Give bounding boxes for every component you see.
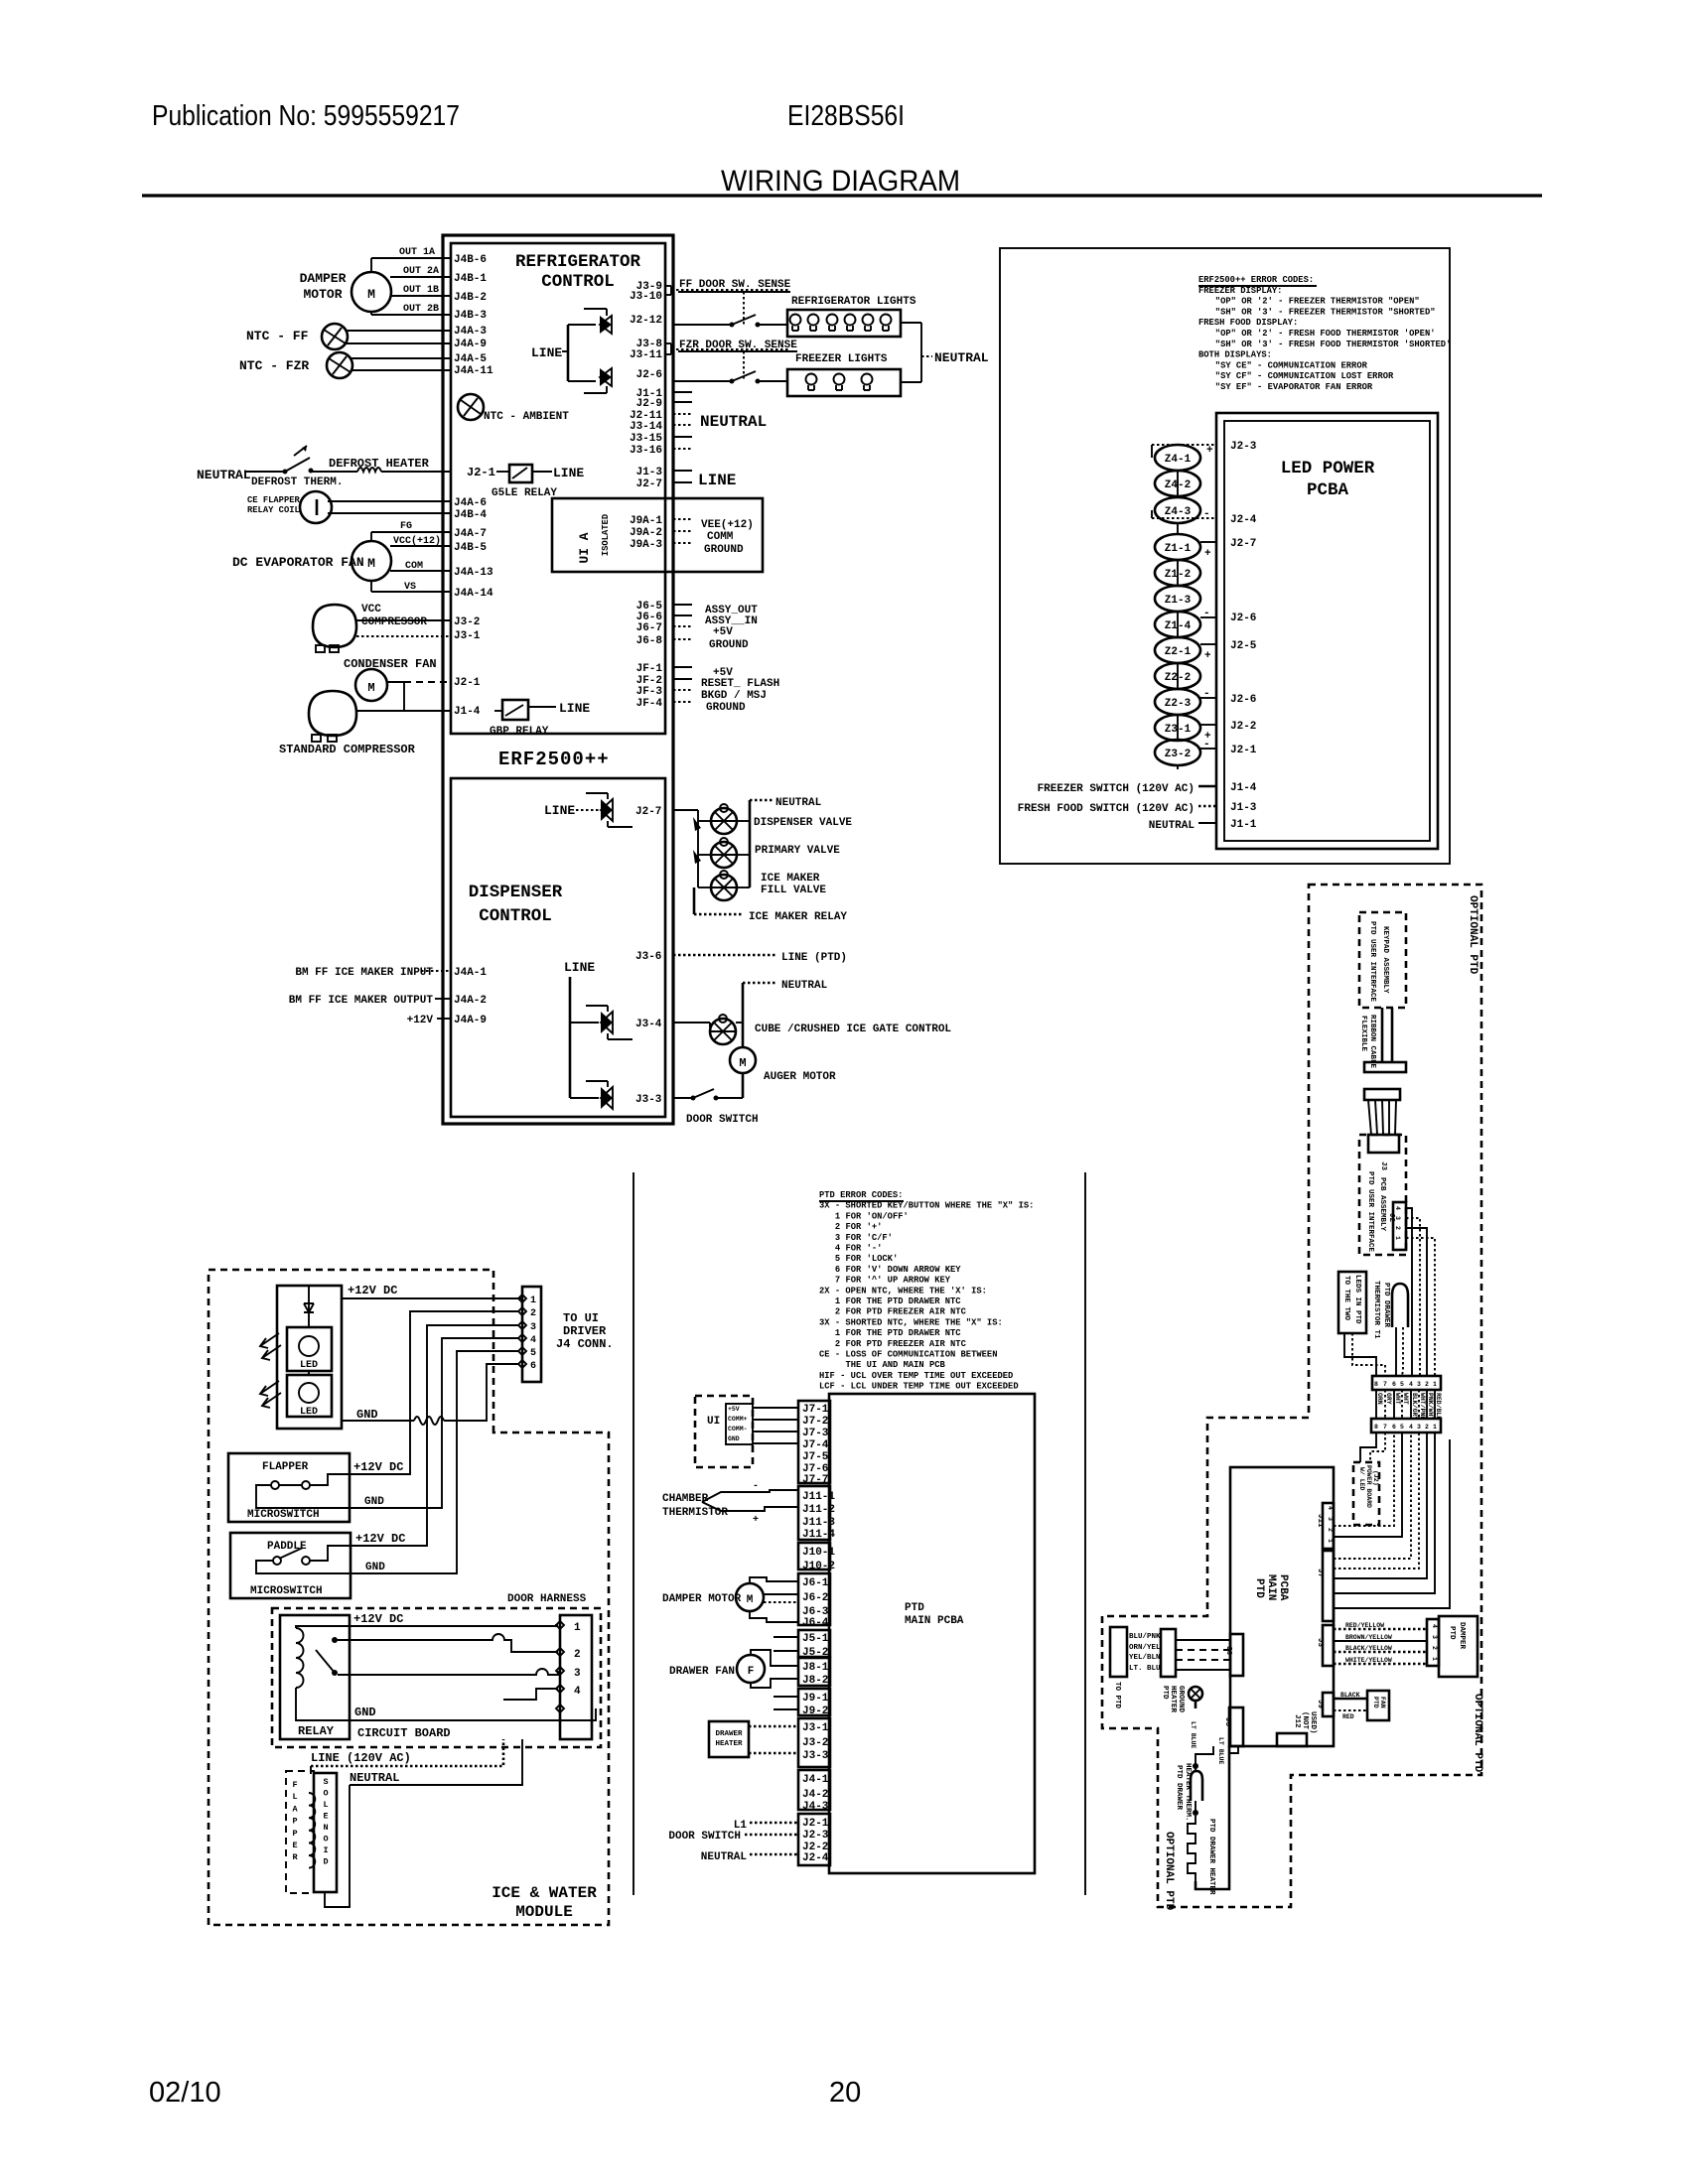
svg-text:2: 2 — [1425, 1381, 1429, 1388]
svg-text:PTD: PTD — [1253, 1578, 1265, 1598]
svg-text:4: 4 — [1409, 1424, 1413, 1431]
diode primary valve — [693, 850, 701, 864]
box U-REF refrigerator control — [451, 243, 665, 734]
svg-text:J4A-11: J4A-11 — [454, 365, 493, 377]
box LED power section outer — [1000, 248, 1450, 864]
wire freezer switch — [1198, 785, 1216, 788]
wire OUT 1A — [370, 258, 372, 273]
wire pin4 to flapper GND — [350, 1338, 518, 1508]
bracket J3-9/J3-10 — [665, 285, 671, 287]
svg-text:MICROSWITCH: MICROSWITCH — [250, 1585, 323, 1597]
svg-text:+12V: +12V — [407, 1015, 434, 1026]
svg-text:1: 1 — [1433, 1424, 1437, 1431]
svg-text:Z4-1: Z4-1 — [1165, 454, 1192, 466]
connector J3 ptd — [798, 1718, 830, 1767]
thermistor chamber probe — [702, 1490, 798, 1511]
svg-text:J4A-13: J4A-13 — [454, 567, 493, 579]
svg-text:J2-7: J2-7 — [635, 806, 661, 818]
svg-text:FILL VALVE: FILL VALVE — [761, 885, 826, 896]
svg-text:4 FOR '-': 4 FOR '-' — [835, 1244, 883, 1254]
svg-text:J10-2: J10-2 — [802, 1561, 835, 1572]
svg-text:J3-10: J3-10 — [630, 291, 662, 303]
svg-text:J1-4: J1-4 — [1230, 782, 1257, 794]
svg-text:J7-5: J7-5 — [802, 1451, 829, 1463]
wire valve neutral bus — [749, 800, 752, 887]
svg-text:J8-1: J8-1 — [802, 1662, 829, 1674]
svg-text:YEL/BLN: YEL/BLN — [1129, 1654, 1161, 1662]
svg-text:8: 8 — [1374, 1381, 1378, 1388]
svg-text:NTC - AMBIENT: NTC - AMBIENT — [484, 411, 569, 423]
pin 2 UI driver — [518, 1307, 526, 1315]
svg-text:RELAY COIL: RELAY COIL — [247, 505, 300, 515]
box PTD DAMPER — [1439, 1616, 1477, 1677]
svg-text:OPTIONAL PTD: OPTIONAL PTD — [1163, 1832, 1175, 1911]
svg-text:RIBBON CABLE: RIBBON CABLE — [1368, 1015, 1376, 1069]
svg-text:J2-7: J2-7 — [636, 478, 662, 490]
svg-text:WHT: WHT — [1394, 1393, 1401, 1405]
wire auger motor to door switch — [742, 1073, 745, 1098]
svg-text:OUT 2B: OUT 2B — [403, 304, 439, 315]
connector J3 bottom optional — [1229, 1707, 1243, 1746]
svg-text:DRAWER FAN: DRAWER FAN — [669, 1666, 735, 1678]
svg-text:J4A-9: J4A-9 — [454, 339, 487, 350]
svg-text:3: 3 — [1417, 1424, 1421, 1431]
LED2 emission arrows — [260, 1381, 279, 1396]
pin 3 UI driver — [518, 1321, 526, 1329]
svg-text:"OP" OR '2' - FREEZER THERMIST: "OP" OR '2' - FREEZER THERMISTOR "OPEN" — [1215, 297, 1420, 307]
switch refrigerator light switch — [730, 323, 735, 328]
svg-text:J3-6: J3-6 — [635, 951, 661, 963]
connector J11 ptd — [798, 1486, 830, 1540]
svg-text:7: 7 — [1383, 1381, 1387, 1388]
svg-text:+: + — [1204, 548, 1211, 560]
svg-text:NEUTRAL: NEUTRAL — [350, 1771, 399, 1785]
svg-text:CE FLAPPER: CE FLAPPER — [247, 495, 301, 505]
svg-text:J2-1: J2-1 — [1230, 745, 1257, 756]
coil solenoid — [309, 1793, 315, 1868]
pin 4 door harness — [556, 1685, 564, 1693]
svg-text:J4A-9: J4A-9 — [454, 1015, 487, 1026]
LED1 emission arrows — [260, 1333, 279, 1348]
svg-text:2: 2 — [1431, 1646, 1438, 1650]
lamp refrigerator light 5 — [863, 315, 874, 326]
svg-text:2 FOR PTD FREEZER AIR NTC: 2 FOR PTD FREEZER AIR NTC — [835, 1339, 967, 1349]
svg-text:MAIN PCBA: MAIN PCBA — [905, 1615, 964, 1627]
wire VS — [370, 581, 372, 592]
svg-text:2 FOR PTD FREEZER AIR NTC: 2 FOR PTD FREEZER AIR NTC — [835, 1307, 967, 1317]
svg-text:4: 4 — [530, 1335, 536, 1346]
svg-text:LINE: LINE — [531, 345, 562, 360]
wire compressor J3-1 — [356, 635, 451, 637]
wire door switch ptd — [745, 1834, 798, 1837]
svg-text:J4B-1: J4B-1 — [454, 273, 487, 285]
svg-text:J3-3: J3-3 — [802, 1750, 829, 1762]
svg-text:DAMPER MOTOR: DAMPER MOTOR — [662, 1593, 742, 1605]
svg-text:J7-2: J7-2 — [802, 1416, 828, 1428]
svg-text:5 FOR 'LOCK': 5 FOR 'LOCK' — [835, 1254, 898, 1264]
svg-text:GND: GND — [364, 1496, 384, 1508]
svg-text:3X - SHORTED NTC, WHERE THE "X: 3X - SHORTED NTC, WHERE THE "X" IS: — [819, 1317, 1003, 1327]
svg-text:3: 3 — [1417, 1381, 1421, 1388]
svg-text:J11-3: J11-3 — [802, 1517, 835, 1529]
pin 5 UI driver — [518, 1347, 526, 1355]
svg-text:J4-1: J4-1 — [802, 1774, 829, 1786]
svg-text:BM FF ICE MAKER INPUT: BM FF ICE MAKER INPUT — [295, 967, 433, 979]
svg-text:-: - — [1203, 739, 1210, 751]
wire chain Z3 — [1177, 715, 1179, 741]
svg-text:M: M — [747, 1594, 754, 1606]
svg-text:J1-1: J1-1 — [1230, 819, 1257, 831]
svg-text:1: 1 — [1327, 1539, 1334, 1543]
lamp refrigerator light 4 — [845, 315, 856, 326]
svg-text:HIF - UCL OVER TEMP TIME OUT E: HIF - UCL OVER TEMP TIME OUT EXCEEDED — [819, 1371, 1013, 1381]
svg-text:NEUTRAL: NEUTRAL — [701, 1851, 748, 1863]
motor M4 auger motor — [730, 1047, 756, 1073]
wires leds/thermistor to connector — [1344, 1333, 1376, 1376]
svg-text:3X - SHORTED KEY/BUTTON WHERE: 3X - SHORTED KEY/BUTTON WHERE THE "X" IS… — [819, 1201, 1034, 1211]
svg-text:NEUTRAL: NEUTRAL — [700, 413, 767, 431]
svg-text:LINE: LINE — [553, 466, 584, 480]
wires damper motor to J6 — [750, 1577, 798, 1583]
svg-text:4: 4 — [1431, 1624, 1438, 1628]
svg-text:J2-3: J2-3 — [802, 1830, 829, 1842]
switch freezer light switch — [730, 379, 735, 384]
svg-text:WIRING DIAGRAM: WIRING DIAGRAM — [721, 165, 960, 198]
svg-text:OUT 2A: OUT 2A — [403, 266, 439, 277]
svg-text:+: + — [1206, 445, 1213, 457]
svg-text:J4 CONN.: J4 CONN. — [556, 1337, 614, 1351]
svg-text:DISPENSER: DISPENSER — [469, 883, 563, 902]
svg-text:2: 2 — [1394, 1226, 1401, 1230]
svg-text:J3-1: J3-1 — [802, 1722, 829, 1734]
svg-text:5: 5 — [1400, 1424, 1404, 1431]
svg-text:J11: J11 — [1316, 1514, 1324, 1528]
svg-text:PCB ASSEMBLY: PCB ASSEMBLY — [1378, 1177, 1386, 1232]
LED zone Z3-2 — [1155, 740, 1200, 765]
LED zone Z4-2 — [1155, 471, 1200, 496]
svg-text:OPTIONAL PTD: OPTIONAL PTD — [1472, 1694, 1483, 1773]
svg-text:COM: COM — [405, 561, 423, 572]
svg-text:J2-9: J2-9 — [636, 398, 662, 410]
wire pin2 to flapper +12V — [350, 1311, 518, 1474]
svg-text:-: - — [1203, 608, 1210, 619]
wire pin6 to LED GND — [444, 1364, 518, 1421]
svg-text:BLACK: BLACK — [1340, 1692, 1360, 1699]
svg-text:PTD DRAWER: PTD DRAWER — [1175, 1765, 1183, 1811]
svg-text:DISPENSER VALVE: DISPENSER VALVE — [754, 817, 852, 829]
svg-text:J11-2: J11-2 — [802, 1504, 835, 1516]
wire fill valve to neutral bus — [737, 887, 750, 888]
svg-text:J4A-2: J4A-2 — [454, 995, 487, 1007]
svg-text:J9: J9 — [1316, 1700, 1324, 1709]
svg-text:CONTROL: CONTROL — [479, 906, 552, 926]
svg-text:J1-4: J1-4 — [454, 706, 481, 718]
connector J7 optional — [1323, 1551, 1334, 1621]
svg-text:TO UI: TO UI — [563, 1311, 599, 1325]
ribbon cable — [1381, 1008, 1384, 1062]
connector door harness — [560, 1615, 592, 1739]
svg-text:J4A-6: J4A-6 — [454, 497, 487, 509]
thermistor PTD drawer therm — [1191, 1771, 1202, 1801]
wire FG — [370, 532, 372, 541]
wire GBP relay to LINE — [528, 706, 556, 708]
wire pin3 to paddle +12V — [351, 1325, 518, 1546]
wire J2-6 to switch — [673, 380, 732, 382]
svg-text:JF-1: JF-1 — [636, 663, 663, 675]
connector J3 optional — [1323, 1625, 1334, 1666]
svg-text:J4B-4: J4B-4 — [454, 509, 487, 521]
svg-text:J7-4: J7-4 — [802, 1439, 829, 1451]
triac Q-J2-6 — [600, 368, 612, 386]
svg-text:HEATER: HEATER — [1169, 1686, 1177, 1713]
svg-text:BLU/PNK: BLU/PNK — [1129, 1633, 1161, 1641]
wire relay coil to J4A-6 — [328, 500, 451, 502]
svg-text:STANDARD COMPRESSOR: STANDARD COMPRESSOR — [279, 743, 416, 756]
lamp freezer light 3 — [862, 374, 873, 385]
wires J3 to damper — [1334, 1628, 1427, 1631]
svg-text:4: 4 — [1327, 1506, 1334, 1510]
svg-text:MODULE: MODULE — [515, 1903, 573, 1921]
svg-text:CUBE /CRUSHED ICE GATE CONTROL: CUBE /CRUSHED ICE GATE CONTROL — [755, 1024, 951, 1035]
svg-text:UI: UI — [707, 1416, 720, 1428]
svg-text:02/10: 02/10 — [149, 2077, 221, 2109]
wire neutral harness — [350, 1739, 522, 1785]
svg-text:PRIMARY VALVE: PRIMARY VALVE — [755, 845, 840, 857]
wires J2 to connector — [1406, 1208, 1412, 1376]
svg-text:PCBA: PCBA — [1277, 1574, 1289, 1601]
svg-text:DRAWER: DRAWER — [715, 1730, 743, 1738]
wire COM — [390, 570, 451, 572]
svg-text:J9A-1: J9A-1 — [630, 515, 662, 527]
wires J6 to PTD connector — [1176, 1639, 1230, 1641]
svg-text:J2-6: J2-6 — [636, 369, 662, 381]
box PTD user interface PCB assembly — [1359, 1135, 1406, 1255]
wire OUT 2A — [390, 276, 451, 278]
svg-text:WHT/PNK: WHT/PNK — [1419, 1393, 1426, 1420]
box U2 LED POWER PCBA — [1216, 413, 1438, 849]
LED zone Z2-1 — [1155, 637, 1200, 663]
dashed box door harness — [272, 1608, 601, 1747]
svg-text:REFRIGERATOR LIGHTS: REFRIGERATOR LIGHTS — [791, 296, 916, 308]
svg-text:BLK/GRY: BLK/GRY — [1411, 1393, 1418, 1420]
svg-text:THERMISTOR T1: THERMISTOR T1 — [1372, 1281, 1380, 1339]
svg-text:Publication No: 5995559217: Publication No: 5995559217 — [152, 100, 460, 132]
svg-text:S: S — [323, 1777, 328, 1787]
svg-text:R: R — [292, 1852, 298, 1862]
svg-text:3: 3 — [530, 1322, 536, 1333]
svg-text:Z1-3: Z1-3 — [1165, 595, 1192, 607]
svg-text:FZR DOOR SW. SENSE: FZR DOOR SW. SENSE — [679, 340, 797, 351]
svg-text:1: 1 — [1394, 1236, 1401, 1240]
pin 1 door harness — [556, 1621, 564, 1629]
wire L1 — [750, 1822, 798, 1825]
svg-text:J4B-3: J4B-3 — [454, 310, 487, 322]
wire relay +12V to pin1 — [296, 1625, 558, 1628]
wires UI to J7 — [753, 1407, 798, 1409]
svg-text:GND: GND — [365, 1562, 385, 1573]
svg-text:FG: FG — [400, 521, 412, 532]
svg-text:J10-1: J10-1 — [802, 1547, 835, 1559]
svg-text:L: L — [292, 1792, 297, 1802]
svg-text:LINE (PTD): LINE (PTD) — [781, 952, 847, 964]
svg-text:BOTH DISPLAYS:: BOTH DISPLAYS: — [1198, 350, 1272, 360]
svg-text:TO THE TWO: TO THE TWO — [1342, 1276, 1350, 1321]
svg-text:3: 3 — [1394, 1216, 1401, 1220]
thermistor NTC-AMBIENT — [458, 394, 484, 420]
svg-text:F: F — [748, 1666, 755, 1678]
svg-text:N: N — [323, 1823, 328, 1833]
switch door switch — [691, 1096, 696, 1101]
wire condenser fan J2-1 dashed — [387, 681, 404, 683]
LED zone Z4-3 — [1155, 497, 1200, 523]
LED zone Z1-2 — [1155, 560, 1200, 586]
svg-text:J4B-6: J4B-6 — [454, 254, 487, 266]
wire J2-1 to G5LE relay — [496, 471, 509, 473]
svg-text:2 FOR '+': 2 FOR '+' — [835, 1222, 883, 1232]
wires J9 to fan — [1334, 1698, 1367, 1701]
svg-text:POWER BOARD: POWER BOARD — [1365, 1465, 1372, 1508]
lamp refrigerator light 1 — [790, 315, 801, 326]
connector TO PTD — [1161, 1629, 1176, 1677]
svg-text:OPTIONAL PTD: OPTIONAL PTD — [1467, 895, 1478, 975]
connector J12 — [1277, 1733, 1307, 1746]
resistor squiggle LED GND — [414, 1417, 444, 1425]
svg-text:LED POWER: LED POWER — [1281, 459, 1375, 478]
svg-text:FRESH FOOD DISPLAY:: FRESH FOOD DISPLAY: — [1198, 318, 1298, 328]
svg-text:LINE: LINE — [544, 803, 575, 818]
wire Z1-4 to J2-6a — [1200, 616, 1216, 618]
wire Z4-3 to J2-4 — [1151, 510, 1153, 518]
separator line left — [633, 1172, 634, 1895]
svg-text:M: M — [367, 287, 375, 302]
wire VCC(+12) — [390, 545, 451, 547]
svg-text:7 FOR '^' UP ARROW KEY: 7 FOR '^' UP ARROW KEY — [835, 1276, 951, 1286]
svg-text:HEATER: HEATER — [715, 1740, 743, 1748]
svg-text:J7-1: J7-1 — [802, 1404, 829, 1416]
pin 6 UI driver — [518, 1360, 526, 1368]
box solenoid — [314, 1773, 337, 1892]
svg-text:+12V DC: +12V DC — [355, 1532, 405, 1546]
svg-text:BM FF ICE MAKER OUTPUT: BM FF ICE MAKER OUTPUT — [289, 995, 434, 1007]
svg-text:ERF2500++ ERROR CODES:: ERF2500++ ERROR CODES: — [1198, 275, 1314, 285]
wire NTC-FZR to J4A-5 — [351, 357, 451, 359]
wire harness pin4 line — [503, 1689, 558, 1700]
svg-text:J6-2: J6-2 — [802, 1592, 828, 1604]
svg-text:J2-5: J2-5 — [1230, 640, 1257, 652]
pin stubs JF cluster — [673, 666, 692, 668]
dashed boundary ice & water module — [209, 1270, 609, 1925]
switch flapper microswitch — [271, 1481, 279, 1489]
pin 2 door harness — [556, 1648, 564, 1656]
svg-text:(NOT: (NOT — [1301, 1711, 1309, 1730]
svg-text:PTD DRAWER HEATER: PTD DRAWER HEATER — [1207, 1819, 1215, 1895]
wire auger neutral bus — [742, 983, 745, 1047]
connector J7 ptd — [798, 1401, 830, 1483]
svg-text:M: M — [367, 681, 374, 695]
svg-text:+: + — [1204, 650, 1211, 662]
svg-text:1: 1 — [574, 1622, 581, 1634]
connector fan-out — [1364, 1089, 1400, 1100]
svg-text:J6-8: J6-8 — [636, 635, 663, 647]
wire LED1-LED2 — [308, 1371, 310, 1375]
wire switch to refrigerator lights — [758, 324, 787, 326]
wire dispenser valve to neutral bus — [737, 820, 750, 822]
wire door switch to auger — [716, 1097, 743, 1099]
svg-text:J3: J3 — [1316, 1638, 1324, 1648]
svg-text:J2-4: J2-4 — [802, 1852, 829, 1864]
svg-text:HEATER THERM.: HEATER THERM. — [1184, 1763, 1192, 1822]
svg-text:ERF2500++: ERF2500++ — [498, 749, 610, 770]
svg-text:J3-4: J3-4 — [635, 1019, 662, 1030]
triac Q-J3-4 — [570, 1022, 599, 1024]
svg-text:J3-16: J3-16 — [630, 445, 662, 457]
svg-text:M: M — [739, 1056, 746, 1070]
wire relay contact to pin3 — [338, 1669, 558, 1675]
relay contacts — [332, 1637, 338, 1643]
svg-text:CONDENSER FAN: CONDENSER FAN — [344, 657, 437, 671]
svg-text:FREEZER LIGHTS: FREEZER LIGHTS — [795, 353, 888, 365]
diode D1 led feed — [308, 1286, 310, 1327]
svg-text:DAMPER: DAMPER — [300, 271, 347, 286]
svg-text:+5V: +5V — [728, 1406, 740, 1413]
svg-text:+: + — [753, 1515, 759, 1526]
svg-text:"SY CE" - COMMUNICATION ERROR: "SY CE" - COMMUNICATION ERROR — [1215, 360, 1368, 370]
svg-text:J6-4: J6-4 — [802, 1617, 829, 1629]
wires J11 up — [1334, 1433, 1394, 1526]
svg-text:J2-3: J2-3 — [1230, 441, 1257, 453]
svg-text:J6-1: J6-1 — [802, 1577, 829, 1589]
svg-text:1: 1 — [530, 1296, 536, 1306]
svg-text:GND: GND — [354, 1706, 376, 1719]
svg-text:LINE: LINE — [698, 472, 736, 489]
svg-text:MICROSWITCH: MICROSWITCH — [247, 1509, 320, 1521]
connector J8 ptd — [798, 1658, 830, 1686]
wire to J4A-2 — [435, 998, 451, 1000]
svg-text:J4A-3: J4A-3 — [454, 326, 487, 338]
wire J1-4 to GBP relay — [494, 710, 502, 712]
wire ptd drawer heater loop — [1196, 1746, 1229, 1889]
connector J9 ptd — [798, 1689, 830, 1715]
svg-text:RESET_ FLASH: RESET_ FLASH — [701, 678, 779, 690]
svg-text:FAN: FAN — [1379, 1697, 1386, 1708]
svg-text:CIRCUIT BOARD: CIRCUIT BOARD — [357, 1726, 451, 1740]
svg-text:GND: GND — [356, 1408, 378, 1422]
switch defrost thermostat — [283, 470, 288, 475]
svg-text:GROUND: GROUND — [1177, 1686, 1185, 1713]
svg-text:COMM: COMM — [707, 531, 734, 543]
svg-text:J2-12: J2-12 — [630, 315, 662, 327]
svg-text:DC EVAPORATOR FAN: DC EVAPORATOR FAN — [232, 555, 364, 570]
svg-text:OUT 1A: OUT 1A — [399, 247, 435, 258]
wire line 120v — [311, 1739, 503, 1766]
svg-text:Z2-1: Z2-1 — [1165, 646, 1192, 658]
lamp freezer light 2 — [834, 374, 845, 385]
relay K2 GBP — [502, 700, 528, 720]
connector J3 ui pcb — [1368, 1135, 1399, 1153]
svg-text:-: - — [753, 1481, 759, 1492]
svg-text:VS: VS — [404, 582, 416, 593]
svg-text:DOOR HARNESS: DOOR HARNESS — [507, 1593, 587, 1605]
svg-text:D: D — [323, 1857, 328, 1867]
svg-text:FLEXIBLE: FLEXIBLE — [1359, 1016, 1367, 1052]
connector J9 optional — [1323, 1693, 1334, 1716]
svg-text:A: A — [292, 1804, 298, 1814]
svg-text:5: 5 — [530, 1348, 536, 1359]
wires J7 up — [1334, 1433, 1411, 1559]
pin stubs J9A — [673, 518, 692, 520]
LED zone Z2-2 — [1155, 663, 1200, 689]
wire neutral led board — [1198, 822, 1216, 824]
